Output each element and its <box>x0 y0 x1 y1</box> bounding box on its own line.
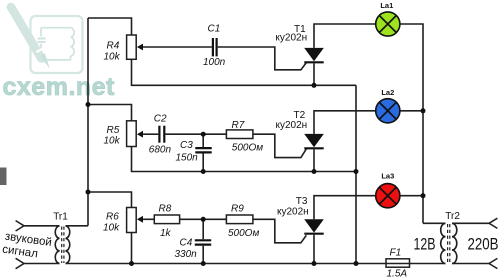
svg-text:C1: C1 <box>208 23 221 34</box>
svg-text:ку202н: ку202н <box>275 33 307 44</box>
lamp La2 <box>376 99 400 123</box>
resistor R5 wiper arrow <box>137 131 143 138</box>
resistor R6 wiper arrow <box>137 216 143 223</box>
svg-text:R4: R4 <box>107 40 120 51</box>
watermark pencil collar gap <box>36 47 44 52</box>
svg-text:1k: 1k <box>160 228 172 239</box>
transformer Tr2 secondary winding <box>452 223 457 263</box>
wire top rail from left bus to R4 top <box>88 18 132 35</box>
wire row3 wiper to R8 <box>143 218 155 220</box>
node C3 top junction <box>201 132 206 137</box>
wire R6 bottom to rail <box>131 233 133 264</box>
svg-text:C4: C4 <box>180 238 193 249</box>
wire Tr2 secondary top <box>452 222 489 224</box>
svg-text:R6: R6 <box>106 212 119 223</box>
wire R5 bottom return row2 <box>132 147 357 172</box>
wire left bus vertical <box>87 18 89 226</box>
transformer Tr1 core <box>62 227 64 264</box>
svg-text:330n: 330n <box>175 249 198 260</box>
input arrow top <box>16 221 24 231</box>
svg-text:10k: 10k <box>103 223 120 234</box>
resistor R8 body <box>154 215 179 224</box>
lamp La1 <box>376 12 400 36</box>
resistor R6 potentiometer body <box>127 208 137 233</box>
node bus-R5 junction <box>86 102 91 107</box>
WATERMARK <box>0 7 115 185</box>
node bus-R6 junction <box>86 190 91 195</box>
wire R6 feed from bus <box>88 192 132 208</box>
svg-text:ку202н: ку202н <box>276 120 308 131</box>
node C4 top junction <box>201 217 206 222</box>
node T1 cathode junction <box>312 83 317 88</box>
watermark logo box <box>31 16 83 73</box>
resistor R4 wiper arrow <box>137 44 143 51</box>
svg-text:Tr2: Tr2 <box>445 211 460 222</box>
wire T1 anode to lamp La1 <box>314 24 376 48</box>
input arrow bottom <box>16 258 24 268</box>
wire C3 top stub <box>202 134 204 147</box>
lamp La3 <box>376 184 400 208</box>
wire Tr2 secondary bottom <box>452 263 489 265</box>
svg-text:12В: 12В <box>414 235 436 254</box>
resistor R4 potentiometer body <box>127 35 137 59</box>
svg-text:C3: C3 <box>180 140 193 151</box>
svg-text:La2: La2 <box>381 88 394 97</box>
wire R8 to R9 <box>180 218 227 220</box>
wire Tr1 secondary top to bus <box>66 225 89 227</box>
svg-text:500Ом: 500Ом <box>232 143 263 154</box>
wire R5 feed from bus <box>88 105 132 121</box>
wire bottom rail main <box>66 263 446 265</box>
resistor R7 body <box>226 130 253 139</box>
wire T3 anode to lamp La3 <box>314 196 376 220</box>
watermark pencil tip <box>40 53 50 68</box>
svg-text:T2: T2 <box>294 110 306 121</box>
svg-text:La1: La1 <box>380 1 393 10</box>
node T3 cathode on rail <box>312 261 317 266</box>
node La3 on right bus <box>421 193 426 198</box>
svg-text:220В: 220В <box>468 235 499 254</box>
svg-text:R5: R5 <box>107 125 120 136</box>
node C4 bottom on rail <box>201 261 206 266</box>
fuse F1 <box>386 259 410 267</box>
watermark pencil body <box>11 7 42 59</box>
transistor T3 cathode bar <box>304 233 323 235</box>
wire C4 bottom stub <box>202 246 204 264</box>
wire C1 to T1 gate <box>218 47 307 70</box>
svg-text:cxem.net: cxem.net <box>3 73 116 101</box>
svg-text:La3: La3 <box>381 171 394 180</box>
transformer Tr1 primary winding <box>55 226 59 264</box>
wire row2 wiper to C2 <box>143 133 159 135</box>
wire T2 anode to lamp La2 <box>314 111 376 134</box>
svg-text:10k: 10k <box>104 51 121 62</box>
node C3 bottom junction <box>201 169 206 174</box>
svg-text:10k: 10k <box>104 135 121 146</box>
watermark inner capacitor <box>38 39 46 42</box>
capacitor C1 plates <box>213 38 217 56</box>
wire T1 cathode <box>313 63 315 85</box>
svg-text:C2: C2 <box>154 114 167 125</box>
wire T3 cathode <box>313 235 315 264</box>
wire La1 right to bus <box>400 24 423 223</box>
transistor T2 thyristor triangle <box>304 134 324 147</box>
node x356 on rail <box>354 261 359 266</box>
output arrow top <box>489 218 497 228</box>
transformer Tr2 core <box>448 224 450 263</box>
wire bus to Tr2 primary top <box>423 222 446 224</box>
wire row1 wiper to C1 <box>143 46 212 48</box>
svg-text:100n: 100n <box>203 57 226 68</box>
wire C3 bottom stub <box>202 154 204 172</box>
resistor R9 body <box>226 215 253 224</box>
wire common vertical x356 <box>355 85 357 263</box>
wire R9 to T3 gate <box>253 219 306 243</box>
capacitor C3 plates <box>195 148 211 152</box>
svg-text:1.5A: 1.5A <box>387 269 408 280</box>
svg-text:R8: R8 <box>159 203 172 214</box>
wire T2 cathode <box>313 149 315 171</box>
svg-text:R9: R9 <box>231 203 244 214</box>
wire Tr1 primary top <box>23 225 59 227</box>
svg-text:F1: F1 <box>390 247 402 258</box>
wire R4 bottom return row1 <box>132 59 357 85</box>
output arrow bottom <box>489 258 497 268</box>
transistor T2 cathode bar <box>304 147 323 149</box>
node T2 cathode junction <box>312 169 317 174</box>
wire La3 right to bus <box>400 195 423 197</box>
wire La2 right to bus <box>400 110 423 112</box>
node R6 bottom on rail <box>129 261 134 266</box>
node La2 on right bus <box>421 108 426 113</box>
watermark gray block <box>0 168 7 186</box>
svg-text:Tr1: Tr1 <box>53 212 68 223</box>
resistor R5 potentiometer body <box>127 121 137 147</box>
node return-x356 row2 junction <box>354 169 359 174</box>
wire bottom rail left part (Tr1 primary bottom) <box>23 263 59 265</box>
transformer Tr2 primary winding <box>441 223 446 263</box>
wire C4 top stub <box>202 219 204 239</box>
svg-text:R7: R7 <box>232 120 245 131</box>
svg-text:ку202н: ку202н <box>277 206 309 217</box>
capacitor C2 plates <box>159 126 164 143</box>
svg-text:500Ом: 500Ом <box>228 228 259 239</box>
transistor T1 cathode bar <box>304 61 323 63</box>
transistor T1 thyristor triangle <box>304 48 324 61</box>
transformer Tr1 secondary winding <box>66 226 70 264</box>
wire R7 to T2 gate <box>253 134 306 157</box>
svg-text:680n: 680n <box>149 144 172 155</box>
capacitor C4 plates <box>195 240 211 244</box>
transistor T3 thyristor triangle <box>304 219 324 232</box>
wire C2 to R7 <box>165 133 226 135</box>
watermark inner LC loop <box>41 28 74 60</box>
svg-text:150n: 150n <box>176 153 199 164</box>
